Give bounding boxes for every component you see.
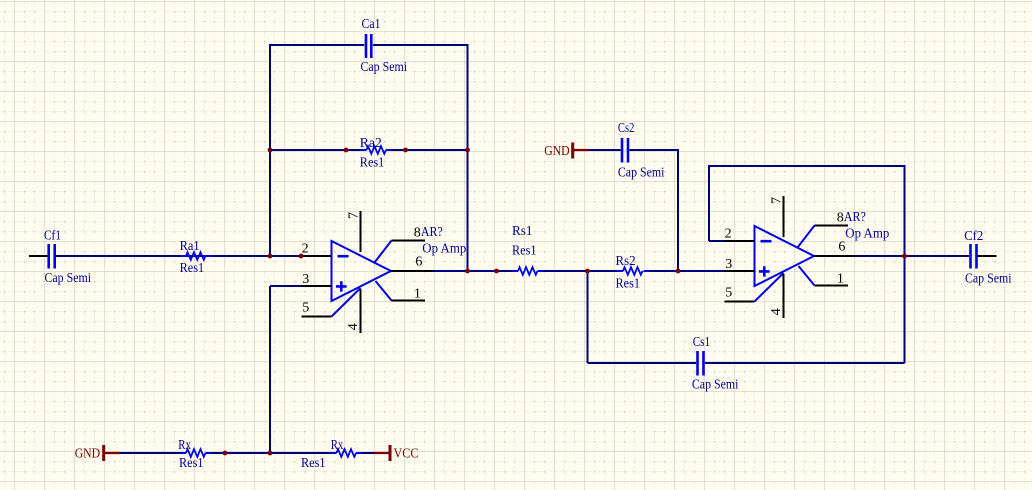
svg-text:4: 4 bbox=[769, 308, 784, 315]
capacitor Cf2 bbox=[964, 229, 1011, 287]
op-amp U2 pin 5 diagonal bbox=[755, 273, 784, 302]
svg-text:5: 5 bbox=[302, 301, 309, 316]
wire Rs2 to U2 pin 3 bbox=[644, 270, 725, 272]
wire Cs2 to corner bbox=[630, 149, 679, 151]
wire right vertical from Ca1 loop to output node bbox=[467, 44, 469, 271]
svg-text:Res1: Res1 bbox=[301, 456, 326, 471]
op-amp U2 pin 8 bbox=[815, 225, 849, 227]
svg-text:Cap Semi: Cap Semi bbox=[965, 272, 1012, 287]
svg-text:Res1: Res1 bbox=[512, 244, 537, 259]
wire bottom row Rx1 to Rx2 bbox=[206, 452, 337, 454]
power port VCC bottom right bbox=[374, 445, 419, 462]
op-amp U1 minus symbol bbox=[338, 255, 349, 258]
junction at Rs1 left pin bbox=[494, 269, 499, 274]
resistor Rs2 bbox=[616, 254, 650, 292]
junction at Ra2 row right bbox=[465, 148, 470, 153]
svg-text:Cs2: Cs2 bbox=[618, 121, 635, 136]
junction at output node x467 bbox=[465, 269, 470, 274]
wire U2 output to Cf2 bbox=[856, 255, 969, 257]
op-amp U2 pin 1 bbox=[815, 285, 849, 287]
power port GND at Cs2 bbox=[544, 143, 588, 160]
svg-text:8: 8 bbox=[414, 225, 421, 240]
svg-text:Op Amp: Op Amp bbox=[845, 227, 889, 242]
op-amp U2 triangle bbox=[755, 226, 815, 286]
svg-text:Cf2: Cf2 bbox=[964, 229, 983, 244]
svg-text:Res1: Res1 bbox=[360, 156, 385, 171]
svg-text:Ca1: Ca1 bbox=[362, 17, 381, 32]
resistor Ra1 bbox=[180, 239, 212, 276]
junction at Ra2 right pin bbox=[403, 148, 408, 153]
op-amp U2 pin 7 bbox=[783, 196, 785, 237]
wire GND to Cs2 bbox=[588, 149, 621, 151]
wire bottom row GND to Rx1 bbox=[120, 452, 186, 454]
resistor Rs1 bbox=[512, 224, 544, 275]
op-amp U1 pin 3 bbox=[302, 285, 332, 287]
op-amp U1 pin 5 bbox=[302, 316, 332, 318]
op-amp U1 pin 4 bbox=[360, 289, 362, 333]
svg-text:Rx: Rx bbox=[331, 438, 344, 453]
wire U2 feedback loop left vertical bbox=[708, 166, 710, 241]
svg-text:Cap Semi: Cap Semi bbox=[618, 166, 665, 181]
op-amp U1 plus symbol bbox=[336, 281, 347, 291]
svg-text:4: 4 bbox=[346, 323, 361, 330]
capacitor Cs1 bbox=[692, 335, 739, 393]
wire U2 pin 2 stub bbox=[709, 240, 725, 242]
svg-text:Res1: Res1 bbox=[180, 261, 205, 276]
svg-text:5: 5 bbox=[725, 286, 732, 301]
wire Cs1 row right segment bbox=[705, 362, 905, 364]
junction at bottom row branch bbox=[268, 451, 273, 456]
op-amp U2 pin 4 bbox=[783, 274, 785, 318]
svg-text:Op Amp: Op Amp bbox=[422, 242, 466, 257]
op-amp U2 pin 3 bbox=[725, 270, 755, 272]
op-amp U1 bbox=[302, 211, 467, 333]
svg-text:2: 2 bbox=[725, 227, 732, 242]
wire U2 feedback loop right vertical bbox=[904, 166, 906, 363]
op-amp U2 bbox=[725, 196, 890, 318]
junction at U1 pin 2 bbox=[299, 254, 304, 259]
svg-text:6: 6 bbox=[838, 239, 845, 254]
junction at Ra2 left pin bbox=[344, 148, 349, 153]
wire Rs1 to Rs2 bbox=[538, 270, 624, 272]
svg-text:Rs1: Rs1 bbox=[512, 224, 533, 239]
wire Cf1 to U1 pin 2 bbox=[56, 255, 301, 257]
svg-text:AR?: AR? bbox=[844, 210, 866, 225]
svg-text:7: 7 bbox=[770, 197, 785, 204]
svg-text:GND: GND bbox=[544, 144, 570, 159]
op-amp U1 pin 1 diagonal bbox=[376, 281, 392, 301]
wire Cs2 corner vertical down to main row bbox=[677, 149, 679, 271]
svg-text:7: 7 bbox=[347, 212, 362, 219]
capacitor Ca1 bbox=[361, 17, 408, 75]
resistor Rx2 bbox=[301, 438, 362, 471]
wire bottom row Rx2 to VCC bbox=[356, 452, 374, 454]
op-amp U2 pin 5 bbox=[725, 301, 755, 303]
op-amp U2 pin 1 diagonal bbox=[799, 266, 815, 286]
op-amp U2 pin 6 bbox=[814, 255, 856, 257]
wire Ca1 loop top-left segment bbox=[270, 44, 364, 46]
wire Ca1 loop top-right segment bbox=[373, 44, 468, 46]
op-amp U1 pin 5 diagonal bbox=[332, 288, 361, 317]
wire Cs1 row left segment bbox=[588, 362, 697, 364]
op-amp U1 pin 2 bbox=[302, 255, 332, 257]
svg-text:1: 1 bbox=[414, 287, 421, 302]
junction at Cs2 branch bbox=[676, 269, 681, 274]
svg-text:3: 3 bbox=[302, 272, 309, 287]
junction at Cs1 branch bbox=[585, 269, 590, 274]
svg-text:Res1: Res1 bbox=[179, 456, 204, 471]
svg-text:3: 3 bbox=[725, 257, 732, 272]
svg-text:Rx: Rx bbox=[178, 438, 191, 453]
power port GND bottom left bbox=[75, 445, 120, 462]
op-amp U2 plus symbol bbox=[759, 266, 770, 276]
junction at Rx1 right pin bbox=[223, 451, 228, 456]
capacitor Cs2 bbox=[618, 121, 665, 181]
junction at Ra2 row left bbox=[268, 148, 273, 153]
svg-text:6: 6 bbox=[415, 254, 422, 269]
junction at pin2 node left bbox=[268, 254, 273, 259]
wire left vertical from Ca1 loop to pin2 node bbox=[269, 44, 271, 256]
op-amp U1 triangle bbox=[332, 241, 392, 301]
op-amp U2 minus symbol bbox=[761, 240, 772, 243]
svg-text:Cap Semi: Cap Semi bbox=[361, 60, 408, 75]
svg-text:Cf1: Cf1 bbox=[44, 229, 61, 244]
resistor Ra2 bbox=[360, 136, 392, 171]
op-amp U1 pin 8 bbox=[392, 240, 426, 242]
wire vertical from U1 pin 3 down to bottom row bbox=[269, 286, 271, 453]
svg-text:Res1: Res1 bbox=[616, 277, 641, 292]
resistor Rx1 bbox=[178, 438, 211, 471]
svg-text:Cap Semi: Cap Semi bbox=[692, 378, 739, 393]
svg-text:Rs2: Rs2 bbox=[616, 254, 636, 269]
wire Ra2 row left segment bbox=[270, 149, 367, 151]
op-amp U2 pin 2 bbox=[725, 240, 755, 242]
wire Ra2 row right segment bbox=[386, 149, 468, 151]
capacitor Cf1 bbox=[29, 229, 91, 286]
op-amp U1 pin 7 bbox=[360, 211, 362, 252]
junction at U2 output node bbox=[902, 254, 907, 259]
wire vertical from main row down to Cs1 row bbox=[587, 271, 589, 363]
svg-text:AR?: AR? bbox=[421, 225, 443, 240]
op-amp U1 pin 8 diagonal bbox=[375, 241, 392, 263]
wire U2 feedback loop top bbox=[708, 165, 906, 167]
svg-text:VCC: VCC bbox=[394, 447, 419, 462]
svg-text:Ra1: Ra1 bbox=[180, 239, 200, 254]
svg-text:GND: GND bbox=[75, 447, 101, 462]
op-amp U1 pin 6 bbox=[391, 270, 433, 272]
svg-text:8: 8 bbox=[837, 210, 844, 225]
op-amp U2 pin 8 diagonal bbox=[798, 226, 815, 248]
wire U1 pin 3 horizontal stub bbox=[270, 285, 302, 287]
svg-text:Cs1: Cs1 bbox=[693, 335, 711, 350]
wire U1 output to Rs1 bbox=[433, 270, 518, 272]
svg-text:1: 1 bbox=[837, 272, 844, 287]
op-amp U1 pin 1 bbox=[392, 300, 426, 302]
svg-text:Ra2: Ra2 bbox=[360, 136, 382, 151]
svg-text:Cap Semi: Cap Semi bbox=[45, 271, 92, 286]
